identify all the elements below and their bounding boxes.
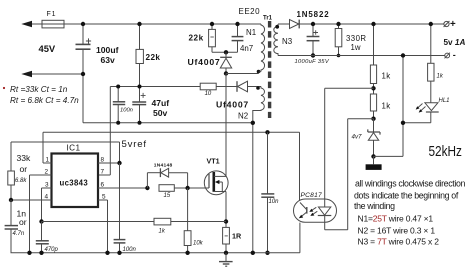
resistor 22k snubber [209,24,216,52]
svg-text:15: 15 [164,193,171,199]
capacitor 1000uF 35V [307,24,320,56]
svg-text:HL1: HL1 [439,98,450,104]
svg-text:1k: 1k [159,228,166,234]
wire rail B (comp rail) [43,132,300,200]
IC1 uc3843 box [52,154,99,208]
wire vcc drop to pin7 [98,87,110,176]
wire bottom ground rail [11,223,300,253]
node pin2 gnd [27,251,31,255]
terminal -5v [445,53,450,59]
svg-text:470p: 470p [45,247,59,253]
svg-text:Rt =33k Ct = 1n: Rt =33k Ct = 1n [10,85,68,94]
svg-text:uc3843: uc3843 [60,178,89,187]
resistor 10 (vcc series) [200,83,216,90]
svg-text:F1: F1 [47,11,57,18]
zener diode 4v7 [368,119,380,157]
svg-text:N3 = 7T wire 0.475 x 2: N3 = 7T wire 0.475 x 2 [358,237,440,247]
resistor 1k divider upper [370,24,376,94]
node N2 return bottom [251,251,255,255]
node gate drive left [145,186,149,190]
wire drain column [225,74,227,177]
svg-text:PC817: PC817 [301,192,322,199]
node input+ junction [81,22,85,26]
svg-text:3: 3 [45,181,49,188]
wire ground rail A [83,122,253,124]
wire vcc rail [110,86,261,88]
svg-text:or: or [19,217,27,227]
resistor 1k LED [428,24,434,103]
red bullet [3,87,5,89]
svg-text:10: 10 [205,91,212,97]
wire pin3 cs [42,188,52,222]
resistor 1k sense [154,218,171,225]
node snubber bottom junction [224,50,228,54]
node pin3 sense [39,219,43,223]
svg-text:1w: 1w [351,43,361,52]
svg-text:8: 8 [101,156,105,163]
wire zener node to opto cathode [325,119,374,230]
node zener top [371,117,375,121]
node 22k top [137,22,141,26]
svg-text:52kHz: 52kHz [429,143,463,160]
svg-text:dots indicate the beginning of: dots indicate the beginning of [354,191,459,201]
node primary winding start dot [257,70,261,74]
ground secondary (bar) [366,156,382,170]
node return junction [81,72,85,76]
wire pin6 out [98,187,147,189]
wire snubber bottom [212,51,238,53]
wire pin2 vfb to gnd [30,175,52,253]
resistor 10k gate pulldown [184,188,191,253]
wire N2 return column [252,110,254,253]
node rtct [9,198,13,202]
node 330R top [336,22,340,26]
node 100n bottom [117,251,121,255]
node 10n top [265,130,269,134]
node 10n bottom [265,251,269,255]
node gate drive right [185,186,189,190]
node 1k LED top [429,22,433,26]
winding N2 aux [253,86,265,110]
svg-text:N1=25T wire 0.47 ×1: N1=25T wire 0.47 ×1 [358,214,434,224]
svg-text:100n: 100n [123,247,137,253]
resistor 22k startup [136,24,143,102]
resistor 1R [223,227,230,252]
svg-text:1N5822: 1N5822 [297,10,330,19]
diode 1N4148 gate [147,168,187,188]
node source sense [224,219,228,223]
node 1000uF top [311,22,315,26]
svg-text:4n7: 4n7 [240,44,253,53]
svg-text:1R: 1R [232,232,242,241]
svg-text:5: 5 [102,193,106,200]
ground primary [219,253,233,266]
svg-text:Rt = 6.8k Ct = 4.7n: Rt = 6.8k Ct = 4.7n [10,96,79,105]
node primary bottom junction [224,71,228,75]
wire source column [225,192,227,228]
svg-text:6.8k: 6.8k [15,178,27,184]
svg-text:100uf: 100uf [96,45,119,55]
node zener bottom / sec gnd [371,154,375,158]
node pin5 gnd [105,251,109,255]
capacitor Ct 1n/4.7n [5,200,18,253]
capacitor 4n7 snubber [232,24,244,52]
transformer Tr1 core [268,21,271,118]
optocoupler LED (right) [318,207,332,216]
node 10k bottom [185,251,189,255]
fuse F1 [42,20,64,28]
winding N3 secondary [274,24,279,56]
svg-text:45V: 45V [39,43,56,54]
note winding text [354,179,466,247]
svg-text:7: 7 [101,168,105,175]
svg-text:1000uF 35V: 1000uF 35V [295,59,330,65]
wire 5vref [11,142,120,163]
svg-text:the winding: the winding [354,201,395,211]
svg-text:Uf4007: Uf4007 [188,57,221,67]
optocoupler phototransistor (left) [299,203,307,219]
svg-text:10n: 10n [269,199,280,205]
svg-text:63v: 63v [101,55,116,65]
wire sense line [42,221,227,223]
wire pin1 comp [43,132,52,163]
svg-text:33k: 33k [17,153,32,163]
node vcc junctions [116,85,141,125]
node pin8 [117,161,121,165]
svg-text:IC1: IC1 [67,143,81,152]
node divider mid [371,86,375,90]
LED HL1 light arrows [416,104,426,113]
node 470p bottom [39,251,43,255]
diode Uf4007 N2 rectifier [237,81,248,92]
wire sec-gnd to right column [374,155,404,157]
capacitor 47uf 50v [132,93,146,123]
svg-text:4: 4 [45,193,49,200]
capacitor C 100uf 63v [76,24,92,123]
pin numbers [45,156,107,200]
svg-text:Uf4007: Uf4007 [216,99,249,109]
wire divider mid to opto [325,88,374,207]
capacitor 100n vref [114,163,126,253]
svg-text:2: 2 [45,168,49,175]
svg-text:50v: 50v [153,108,168,118]
node snubber top [210,22,214,26]
svg-text:5v 1A: 5v 1A [444,38,466,47]
wire pin5 gnd [98,200,108,253]
node LED return [401,121,405,125]
svg-text:+: + [450,19,456,30]
svg-text:-: - [453,50,456,60]
wire top rail 45V [64,23,261,25]
diode 1N5822 [278,20,444,29]
svg-text:N3: N3 [282,37,293,46]
svg-text:4.7n: 4.7n [13,231,25,237]
svg-text:1k: 1k [382,71,391,80]
terminal +5v [444,21,450,27]
svg-text:5vref: 5vref [122,139,147,150]
wire output minus rail [278,55,445,57]
capacitor 470p [36,222,49,253]
resistor 15 gate [159,185,209,192]
node source gnd [224,251,228,255]
svg-text:4v7: 4v7 [352,134,363,141]
svg-text:1k: 1k [382,102,391,111]
node right column top [401,53,405,57]
optocoupler PC817 body [294,199,337,222]
svg-text:100n: 100n [120,107,133,113]
transistor VT1 mosfet [204,171,228,195]
svg-text:or: or [20,164,28,174]
LED HL1 [403,103,439,123]
svg-text:EE20: EE20 [239,7,261,16]
svg-text:N2: N2 [238,112,248,121]
node divider top [371,22,375,26]
svg-text:Tr1: Tr1 [263,16,273,22]
svg-text:22k: 22k [146,53,161,62]
svg-text:VT1: VT1 [207,157,220,166]
optocoupler light arrows [309,207,317,216]
resistor 330R 1w [335,24,342,56]
svg-text:1N4148: 1N4148 [154,163,173,169]
resistor 1k divider lower [370,94,376,119]
wire pin8 vref [98,162,120,164]
svg-text:1k: 1k [437,74,444,80]
diode Uf4007 snubber clamp [220,52,232,73]
wire pin4 rtct [11,199,52,201]
resistor Rt 33k/6.8k [8,142,15,200]
node 4n7 top [235,22,239,26]
capacitor 10n [261,132,274,253]
svg-text:all windings clockwise directi: all windings clockwise direction [355,179,466,189]
input terminal arrow - (return) [21,71,83,78]
wire primary bottom to drain [226,71,259,74]
svg-text:47uf: 47uf [152,98,170,108]
winding N1 primary [259,24,265,72]
node N2 return on rail A [251,121,255,125]
capacitor 100n vcc [113,87,125,123]
svg-text:10k: 10k [193,241,204,247]
svg-text:22k: 22k [189,34,204,43]
svg-text:6: 6 [101,181,105,188]
svg-text:N1: N1 [246,28,256,37]
node 330R bottom [337,54,341,58]
svg-text:N2 = 16T wire 0.3 × 1: N2 = 16T wire 0.3 × 1 [358,225,436,235]
node 1000uF bottom [311,53,315,57]
wire right column from minus rail [402,56,404,157]
svg-text:1: 1 [46,156,50,163]
input terminal arrow + [21,21,42,28]
